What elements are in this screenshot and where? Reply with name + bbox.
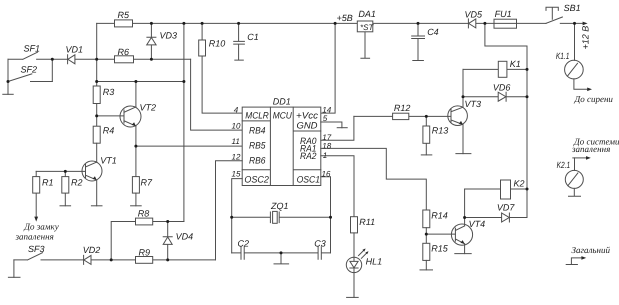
- wire VT2 emitter down to R7: [135, 126, 137, 177]
- ground SF2: [3, 93, 13, 95]
- node rail-SB1: [573, 22, 576, 25]
- svg-text:11: 11: [232, 137, 240, 146]
- svg-text:DD1: DD1: [273, 96, 291, 106]
- node VD4-R9: [166, 258, 169, 261]
- wire R3-R4 node to VT2 base: [97, 115, 124, 117]
- node C2-C3 ground: [280, 251, 283, 254]
- node VT3 collector VD6: [462, 95, 465, 98]
- wire SF3 left down: [13, 260, 15, 277]
- diode VD7: [465, 213, 527, 222]
- wire crystal left down to C2 bus: [231, 217, 233, 253]
- wire OSC2 pin 15: [232, 179, 243, 218]
- svg-text:До сирени: До сирени: [574, 94, 614, 104]
- node VD3 bottom: [150, 58, 153, 61]
- arrow common: [581, 256, 586, 260]
- svg-text:K1.1: K1.1: [556, 51, 570, 61]
- wire OSC1 pin 16: [321, 177, 331, 218]
- relay contact K2.1: [565, 170, 583, 188]
- ground common (Zagalnyi): [566, 258, 582, 265]
- node y81-x184: [182, 80, 185, 83]
- svg-text:R11: R11: [359, 217, 375, 227]
- wire R14-R15 node to VT4 base: [426, 233, 455, 235]
- node rail-VD3: [150, 22, 153, 25]
- wire ignition system arrow: [573, 157, 587, 159]
- node R8-VD4: [166, 220, 169, 223]
- wire VT2 collector to node-A line: [135, 82, 137, 107]
- svg-text:VD1: VD1: [66, 45, 84, 55]
- diode VD6: [463, 92, 527, 101]
- ground MCU GND: [337, 127, 347, 129]
- switch SB1: [546, 7, 562, 23]
- svg-text:MCLR: MCLR: [245, 111, 269, 121]
- svg-text:VT4: VT4: [469, 219, 486, 229]
- capacitor C3: [281, 247, 331, 259]
- svg-text:R13: R13: [432, 126, 449, 136]
- svg-text:VD3: VD3: [160, 31, 178, 41]
- svg-text:16: 16: [322, 169, 331, 178]
- wire RB5 pin 11: [136, 145, 242, 147]
- svg-text:SF3: SF3: [28, 244, 45, 254]
- transistor VT1: [82, 161, 102, 181]
- svg-text:R5: R5: [118, 10, 130, 20]
- svg-text:R3: R3: [103, 87, 115, 97]
- arrow to ignition system: [586, 156, 591, 160]
- wire crystal right down to C3 bus: [330, 217, 332, 253]
- voltage regulator DA1: [357, 21, 373, 58]
- svg-text:15: 15: [232, 169, 241, 178]
- wire +12V down to K1.1: [574, 23, 576, 60]
- wire R6 to RB4 pin 10: [191, 59, 243, 130]
- svg-text:R2: R2: [71, 178, 83, 188]
- wire GND pin 5: [321, 122, 342, 128]
- svg-text:C1: C1: [247, 32, 259, 42]
- wire top +12V rail segment A: [97, 22, 115, 24]
- svg-text:DA1: DA1: [358, 9, 376, 19]
- node rail-C4: [417, 22, 420, 25]
- node crystal left: [230, 216, 233, 219]
- svg-text:1: 1: [323, 151, 327, 160]
- svg-text:запалення: запалення: [15, 231, 54, 241]
- wire HL1 to ground: [353, 273, 355, 298]
- svg-text:VD7: VD7: [497, 203, 516, 213]
- wire top rail segment C: [476, 22, 546, 24]
- svg-text:+Vcc: +Vcc: [296, 111, 318, 121]
- resistor R8: [111, 218, 184, 260]
- svg-text:R7: R7: [141, 178, 153, 188]
- wire top rail segment B: [133, 22, 469, 24]
- fuse FU1: [494, 19, 517, 28]
- op-amp U1 MCU DD1 box: [242, 107, 321, 185]
- transistor VT4: [451, 224, 472, 245]
- svg-text:+12 В: +12 В: [581, 26, 591, 50]
- ground HL1: [347, 296, 359, 298]
- capacitor C2: [232, 247, 281, 259]
- transistor VT2: [120, 106, 141, 127]
- svg-text:MCU: MCU: [273, 111, 292, 121]
- node VD2-R9: [110, 258, 113, 261]
- resistor R7: [132, 177, 139, 206]
- svg-text:R12: R12: [394, 103, 411, 113]
- diode VD2: [84, 255, 136, 264]
- svg-text:VD5: VD5: [465, 9, 484, 19]
- ground R15: [420, 269, 433, 271]
- resistor R3: [93, 86, 100, 126]
- relay coil K2: [465, 180, 527, 199]
- wire node VD1 junction vertical: [96, 23, 98, 86]
- svg-text:18: 18: [322, 141, 331, 150]
- wire SF1 to SF2 vertical: [51, 59, 53, 81]
- wire RB6 pin 12: [216, 161, 243, 260]
- svg-text:GND: GND: [297, 121, 318, 131]
- svg-text:C3: C3: [314, 238, 326, 248]
- node A left: [95, 80, 98, 83]
- svg-text:VD2: VD2: [83, 245, 101, 255]
- diode VD3: [147, 23, 156, 59]
- wire VT1 emitter: [96, 180, 98, 206]
- ground VT1: [91, 205, 102, 207]
- resistor R4: [93, 126, 100, 162]
- node VT2 collector: [134, 80, 137, 83]
- svg-text:R10: R10: [209, 38, 226, 48]
- wire K1.1 to siren arrow: [574, 79, 588, 89]
- node SF2 left: [7, 80, 10, 83]
- resistor R2: [62, 171, 69, 205]
- switch SF2: [8, 74, 52, 82]
- ground VT3: [456, 153, 471, 155]
- svg-text:R15: R15: [431, 243, 449, 253]
- ground SF3: [8, 276, 20, 278]
- svg-text:До замку: До замку: [23, 222, 58, 232]
- svg-text:R9: R9: [139, 248, 151, 258]
- node rail-C1: [237, 22, 240, 25]
- node SF1 right: [51, 58, 54, 61]
- svg-text:R8: R8: [138, 209, 150, 219]
- ground crystal bus: [274, 253, 289, 264]
- wire RA0 pin 17: [321, 116, 354, 140]
- node VD6 right: [526, 95, 529, 98]
- diode VD5: [468, 19, 475, 28]
- node VT2 emitter RB5: [134, 145, 137, 148]
- svg-text:C2: C2: [238, 238, 250, 248]
- node rail-R10: [201, 22, 204, 25]
- ground R13: [421, 154, 432, 156]
- wire VT4 collector up to K2: [464, 189, 466, 226]
- resistor R15: [423, 243, 430, 270]
- node R12-R13: [425, 115, 428, 118]
- svg-text:VD4: VD4: [176, 232, 194, 242]
- wire +5B to +Vcc pin 14: [321, 23, 335, 113]
- svg-text:Загальний: Загальний: [572, 245, 611, 255]
- ground R2: [60, 205, 71, 207]
- LED HL1: [346, 249, 368, 273]
- svg-text:R6: R6: [118, 47, 130, 57]
- resistor R1: [33, 171, 40, 216]
- relay contact K1.1: [565, 60, 584, 79]
- resistor R14: [423, 210, 430, 243]
- svg-text:RA2: RA2: [300, 151, 317, 161]
- node K2 right: [526, 188, 529, 191]
- svg-text:VT2: VT2: [140, 103, 157, 113]
- switch SF3: [14, 253, 84, 260]
- svg-text:RB4: RB4: [249, 125, 266, 135]
- svg-text:12: 12: [232, 152, 241, 161]
- svg-text:RB5: RB5: [249, 140, 266, 150]
- svg-text:SF2: SF2: [21, 64, 38, 74]
- resistor R11: [351, 217, 358, 258]
- resistor R12: [354, 113, 451, 119]
- svg-text:R1: R1: [42, 178, 54, 188]
- svg-text:+5В: +5В: [337, 13, 353, 23]
- svg-text:OSC2: OSC2: [244, 175, 269, 185]
- svg-text:K2: K2: [514, 179, 525, 189]
- svg-text:VT3: VT3: [465, 99, 482, 109]
- transistor VT3: [448, 106, 468, 126]
- svg-text:4: 4: [234, 105, 239, 114]
- wire RA2 pin 1: [321, 156, 354, 217]
- wire VT3 emitter: [462, 125, 464, 154]
- svg-text:HL1: HL1: [366, 257, 383, 267]
- node R2 top: [64, 170, 67, 173]
- svg-text:OSC1: OSC1: [297, 175, 321, 185]
- arrow +12V rail end: [583, 22, 588, 26]
- svg-text:VT1: VT1: [100, 156, 117, 166]
- node R14-R15: [425, 233, 428, 236]
- wire K1 supply branch: [485, 23, 527, 217]
- wire RA1 pin 18: [321, 148, 427, 210]
- capacitor C1: [234, 23, 245, 60]
- wire VT1 base line: [36, 170, 85, 172]
- arrow R1 to ignition lock: [34, 217, 38, 222]
- svg-text:VD6: VD6: [493, 82, 511, 92]
- wire arrow down to K2.1: [574, 158, 576, 171]
- wire VT4 emitter: [464, 244, 466, 254]
- svg-text:R4: R4: [103, 126, 115, 136]
- arrow to siren: [587, 88, 592, 92]
- svg-text:*ST: *ST: [360, 23, 374, 32]
- svg-text:запалення: запалення: [571, 144, 610, 154]
- crystal ZQ1: [232, 211, 331, 223]
- wire top rail segment D: [560, 22, 583, 24]
- svg-text:10: 10: [232, 121, 241, 130]
- node crystal right: [329, 216, 332, 219]
- diode VD4: [163, 222, 172, 260]
- svg-text:C4: C4: [427, 27, 439, 37]
- svg-text:SF1: SF1: [24, 44, 41, 54]
- node K1 right: [526, 68, 529, 71]
- switch SF1: [8, 52, 52, 59]
- svg-text:FU1: FU1: [495, 9, 512, 19]
- wire node-A horizontal y81.5: [97, 81, 184, 83]
- capacitor C4: [412, 23, 425, 60]
- node VD1 output: [95, 58, 98, 61]
- node rail-K1 branch: [483, 22, 486, 25]
- svg-text:ZQ1: ZQ1: [270, 201, 289, 211]
- wire VT3 collector up to K1: [462, 69, 464, 107]
- ground VT4: [455, 253, 471, 255]
- svg-text:RB6: RB6: [249, 156, 266, 166]
- wire K2.1 bottom stub: [569, 188, 581, 196]
- node rail-x184: [182, 22, 185, 25]
- node VT4 collector VD7: [463, 216, 466, 219]
- diode VD1: [52, 55, 96, 64]
- svg-text:K1: K1: [510, 59, 521, 69]
- resistor R5: [115, 20, 133, 27]
- svg-text:5: 5: [323, 114, 328, 123]
- resistor R10: [199, 23, 243, 113]
- wire SF left vertical: [7, 59, 9, 94]
- svg-text:R14: R14: [431, 211, 448, 221]
- resistor R13: [423, 116, 430, 154]
- svg-text:SB1: SB1: [564, 3, 581, 13]
- ground R7: [131, 205, 142, 207]
- resistor R6: [97, 56, 191, 63]
- resistor R9: [136, 257, 216, 264]
- wire branch rail-to-RB5 vertical x184: [183, 23, 185, 221]
- node R3-R4: [95, 114, 98, 117]
- svg-text:K2.1: K2.1: [557, 160, 571, 170]
- node rail +5B: [334, 22, 337, 25]
- relay coil K1: [463, 61, 527, 77]
